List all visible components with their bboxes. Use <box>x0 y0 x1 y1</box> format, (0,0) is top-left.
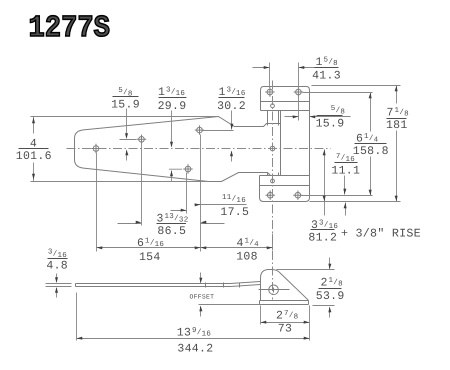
arrow down 81.2 <box>323 196 326 202</box>
arrow up 29.9 pair <box>170 171 173 177</box>
dim 158.8 leaders and vline <box>302 93 373 196</box>
arrow down 101.6 bottom <box>32 174 35 180</box>
arrow up 81.2 <box>323 150 326 156</box>
svg-text:4.8: 4.8 <box>46 260 68 273</box>
svg-text:1277S: 1277S <box>29 12 110 46</box>
svg-text:73: 73 <box>278 323 292 336</box>
arrow up offset <box>199 306 202 312</box>
hole top bracket right <box>296 89 302 95</box>
arrow down 158.8 <box>369 190 372 196</box>
arrow down 30.2 <box>230 124 233 130</box>
arrow left 344.2 <box>77 337 83 340</box>
bottom bracket inner line <box>260 185 310 187</box>
top bracket inner line <box>261 101 310 103</box>
arrow down offset <box>199 278 202 284</box>
svg-text:344.2: 344.2 <box>177 343 213 356</box>
hole H2 <box>139 137 145 143</box>
strap tick 2 <box>223 283 225 288</box>
arrow up 181 <box>395 86 398 92</box>
offset dim arrow lines <box>200 273 202 317</box>
dim 81.2 vline <box>324 150 326 216</box>
butt plate right edge <box>309 111 311 176</box>
knuckle left side <box>267 111 269 176</box>
top bracket outline <box>261 87 310 111</box>
svg-text:86.5: 86.5 <box>157 225 186 238</box>
svg-text:41.3: 41.3 <box>312 70 341 83</box>
arrow right 41.3 left <box>264 66 270 69</box>
arrow down 181 <box>395 196 398 202</box>
side bracket base lines <box>260 301 309 305</box>
arrow up 158.8 <box>369 93 372 99</box>
svg-text:81.2: 81.2 <box>308 232 337 245</box>
arrow left 108 <box>201 246 207 249</box>
column extension H3 <box>186 173 188 214</box>
centerline horizontal <box>67 148 331 150</box>
arrow up 30.2 pair <box>230 151 233 157</box>
arrow down 11.1 <box>343 189 346 195</box>
pivot circle bottom <box>271 179 275 183</box>
svg-text:158.8: 158.8 <box>353 145 389 158</box>
dim 344.2 extension line <box>76 293 78 341</box>
column extension H2 <box>141 142 143 226</box>
arrow right 17.5 leader <box>195 203 201 206</box>
dim 53.9 extension lines <box>277 270 335 306</box>
pin extension short <box>272 234 274 251</box>
column extension H4 <box>200 135 202 252</box>
arrow down 53.9 <box>328 264 331 270</box>
hole H4 <box>197 127 203 133</box>
strap tick 1 <box>205 283 207 288</box>
svg-text:+ 3/8″ RISE: + 3/8″ RISE <box>341 227 421 241</box>
svg-text:17.5: 17.5 <box>220 206 249 219</box>
svg-text:30.2: 30.2 <box>217 100 246 113</box>
dim line 73 <box>261 322 310 324</box>
dim line 154 <box>97 247 201 249</box>
dim 11.1 arrows lines <box>345 176 346 216</box>
leaf left rounded cap <box>75 130 84 168</box>
leaf outline bottom edge <box>84 168 281 181</box>
dim 30.2 vline <box>203 111 234 162</box>
side bracket pin hole <box>269 285 279 295</box>
dim line 344.2 <box>77 338 310 340</box>
pin hole crosshair <box>259 288 290 293</box>
pivot circle top <box>271 104 275 108</box>
arrow down 4.8 <box>55 277 58 283</box>
centerline vertical pin axis <box>272 81 274 300</box>
dim 86.5 arrow lines <box>118 223 225 225</box>
dim 4.8 arrow lines <box>56 274 58 298</box>
svg-text:15.9: 15.9 <box>316 118 345 131</box>
hole bottom bracket left <box>267 192 273 198</box>
side bracket outline <box>261 270 309 301</box>
side view strap top line <box>76 282 261 284</box>
dim line 108 <box>201 247 273 249</box>
side view strap bottom line <box>76 285 261 287</box>
arrow right 86.5 left <box>136 221 142 224</box>
svg-text:53.9: 53.9 <box>316 290 345 303</box>
bottom bracket outline <box>260 176 310 202</box>
svg-text:154: 154 <box>139 251 161 264</box>
arrow up 11.1 pair <box>344 203 347 209</box>
arrow right 344.2 <box>304 337 310 340</box>
svg-text:29.9: 29.9 <box>158 100 187 113</box>
extension line top 4in <box>31 116 219 118</box>
svg-text:15.9: 15.9 <box>111 99 140 112</box>
dim 15.9 left vline <box>120 109 137 161</box>
hole H1 <box>93 146 99 152</box>
hole H3 <box>185 166 191 172</box>
dim 53.9 arrow lines <box>329 258 331 318</box>
svg-text:101.6: 101.6 <box>16 150 52 163</box>
arrow left 154 <box>97 246 103 249</box>
arrow right 73 <box>304 321 310 324</box>
arrow right 108 <box>267 246 273 249</box>
svg-text:181: 181 <box>386 119 408 132</box>
svg-text:OFFSET: OFFSET <box>190 294 215 301</box>
dim 4.8 extension lines <box>46 284 72 287</box>
hole bottom bracket right <box>295 192 301 198</box>
strap left end cap <box>75 284 77 287</box>
extension line bottom 4in <box>31 181 209 183</box>
arrow up 53.9 <box>328 307 331 313</box>
dim 73 extension lines <box>261 306 310 341</box>
arrow up 101.6 top <box>32 118 35 124</box>
arrow right 15.9 right dim <box>293 115 299 118</box>
arrow left 41.3 right <box>299 66 305 69</box>
strap tick 3 <box>239 283 241 288</box>
dim 181 extensions and vline <box>310 86 401 202</box>
arrow right 154 <box>195 246 201 249</box>
knuckle right side <box>278 111 280 176</box>
offset lower extension line <box>199 304 260 306</box>
dim 17.5 leader and arrow line <box>171 205 247 211</box>
dim 15.9 right lines <box>285 96 351 121</box>
arrow up 15.9 left pair <box>125 150 128 156</box>
arrow up 4.8 <box>55 287 58 293</box>
hole top bracket left <box>267 89 273 95</box>
svg-text:108: 108 <box>236 251 258 264</box>
arrow right 17.5 at H3 <box>181 209 187 212</box>
arrow left 15.9 right dim <box>310 115 316 118</box>
dim line 4/101.6 <box>33 117 35 182</box>
arrow left 86.5 right <box>201 221 207 224</box>
dim 29.9 vline <box>169 111 182 182</box>
leaf outline top edge <box>84 117 281 130</box>
butt plate left edge <box>280 111 282 176</box>
arrow left 73 <box>261 321 267 324</box>
pivot circle middle <box>270 146 275 151</box>
dim 41.3 extension and dim lines <box>253 63 315 88</box>
arrow down 29.9 <box>170 142 173 148</box>
svg-text:11.1: 11.1 <box>331 165 360 178</box>
arrow down 15.9 left <box>125 133 128 139</box>
column extension H1 <box>96 153 98 252</box>
